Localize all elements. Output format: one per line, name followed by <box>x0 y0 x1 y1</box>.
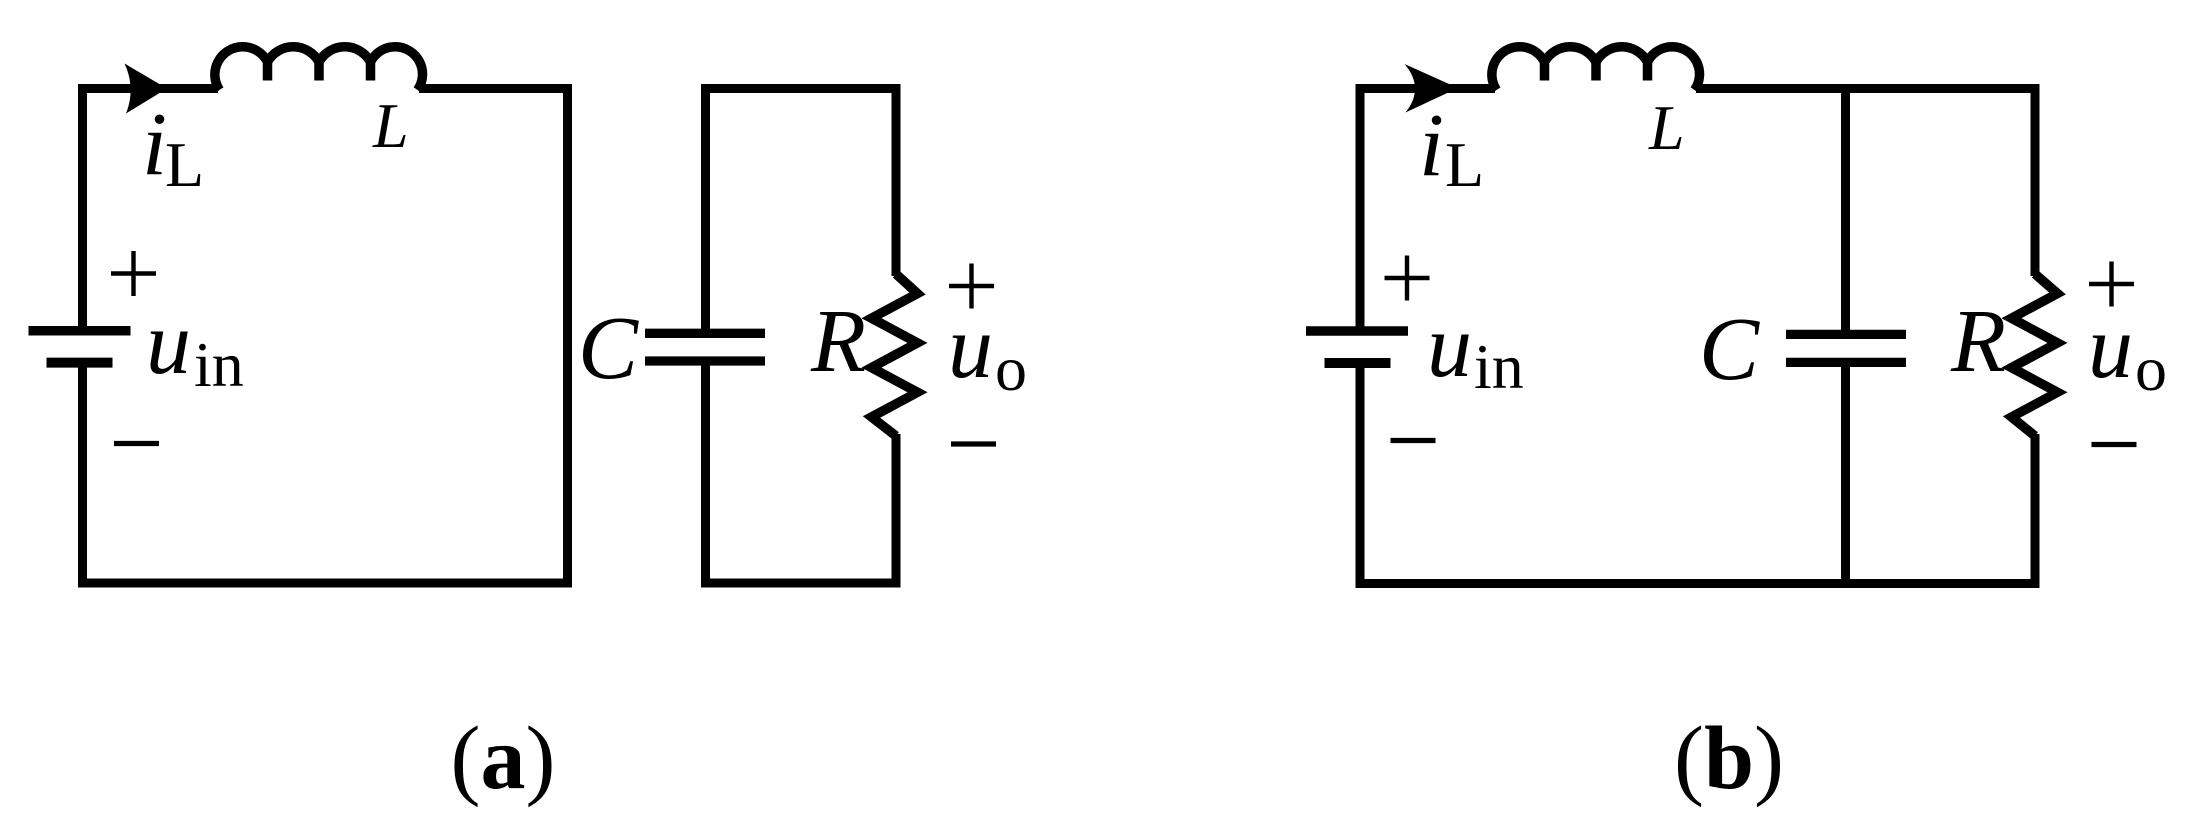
svg-text:u: u <box>146 294 191 393</box>
wire: right loop upper (left side, top, right side down to resistor) <box>706 89 897 335</box>
label uo <box>948 298 1027 404</box>
wire: outer loop top right + right side + bottom + lower-left <box>1360 89 2035 584</box>
battery U_in long plate <box>29 326 131 336</box>
inductor L coil <box>215 47 423 90</box>
svg-text:L: L <box>1648 92 1685 163</box>
svg-text:u: u <box>1427 297 1472 396</box>
label C <box>578 299 639 398</box>
svg-text:R: R <box>1950 292 2006 391</box>
current arrow iL <box>125 64 168 114</box>
plus sign uin <box>1385 256 1430 301</box>
minus sign uo <box>2092 442 2137 447</box>
plus sign uin <box>111 251 156 296</box>
minus sign uo <box>951 441 996 446</box>
label C <box>1699 300 1760 399</box>
wire: right loop lower (resistor down, bottom, left side up to capacitor) <box>706 361 897 583</box>
plus sign uo <box>2089 262 2134 307</box>
label L <box>1648 92 1685 163</box>
wire: left loop top-left segment <box>83 89 219 332</box>
svg-text:C: C <box>1699 300 1760 399</box>
caption (a) <box>451 709 556 808</box>
svg-text:L: L <box>165 129 204 200</box>
label uin <box>146 294 244 400</box>
svg-text:i: i <box>1419 96 1444 195</box>
battery U_in short plate <box>47 358 113 368</box>
wire: capacitor branch lower <box>1841 361 1850 584</box>
svg-text:u: u <box>2088 298 2133 397</box>
wire: left loop right side + bottom + lower-left <box>83 89 568 584</box>
resistor R zigzag <box>872 274 918 436</box>
label uin <box>1427 297 1524 402</box>
capacitor C plates <box>1786 334 1906 362</box>
svg-text:(b): (b) <box>1674 709 1784 808</box>
wire: capacitor branch upper <box>1841 89 1850 336</box>
label iL <box>142 95 204 200</box>
svg-text:i: i <box>142 95 167 194</box>
battery U_in long plate <box>1306 326 1408 336</box>
minus sign uin <box>1391 438 1436 443</box>
caption (b) <box>1674 709 1784 808</box>
label iL <box>1419 96 1484 200</box>
minus sign uin <box>114 441 159 446</box>
svg-text:o: o <box>2135 333 2167 404</box>
label L <box>372 90 409 161</box>
svg-text:L: L <box>1445 129 1484 200</box>
resistor R zigzag <box>2012 274 2058 436</box>
svg-text:u: u <box>948 298 993 397</box>
svg-text:R: R <box>810 292 866 391</box>
label uo <box>2088 298 2167 404</box>
battery U_in short plate <box>1325 358 1391 368</box>
svg-text:L: L <box>372 90 409 161</box>
svg-text:o: o <box>995 333 1027 404</box>
current arrow iL <box>1405 64 1459 113</box>
capacitor C plates <box>645 333 765 361</box>
svg-text:in: in <box>1474 331 1524 402</box>
svg-text:C: C <box>578 299 639 398</box>
plus sign uo <box>949 264 994 309</box>
label R <box>810 292 866 391</box>
svg-text:in: in <box>194 329 244 400</box>
inductor L coil <box>1492 47 1700 90</box>
label R <box>1950 292 2006 391</box>
svg-text:(a): (a) <box>451 709 556 808</box>
wire: outer loop top-left segment <box>1360 89 1495 332</box>
